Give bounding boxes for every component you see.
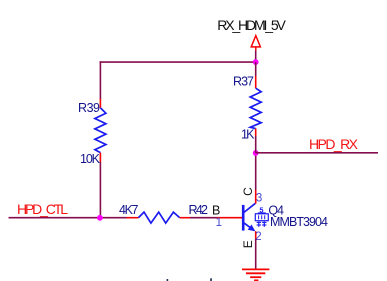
ground [242, 269, 269, 280]
svg-text:E: E [241, 240, 255, 248]
power symbol RX_HDMI_5V [251, 36, 260, 51]
wire R37 junction A down [255, 62, 257, 76]
svg-text:1: 1 [216, 217, 222, 229]
resistor R37 [250, 76, 261, 136]
svg-text:R42: R42 [189, 203, 209, 217]
svg-text:R39: R39 [78, 101, 100, 115]
transistor Q4 collector line [244, 203, 256, 212]
resistor R39 [95, 99, 106, 162]
svg-text:HPD_CTL: HPD_CTL [17, 201, 68, 217]
wire top horizontal [100, 61, 256, 63]
svg-text:1K: 1K [241, 128, 255, 142]
wire R37 to junction C [255, 136, 257, 153]
svg-text:10K: 10K [80, 152, 101, 166]
svg-text:4K7: 4K7 [119, 203, 139, 217]
svg-text:RX_HDMI_5V: RX_HDMI_5V [217, 17, 286, 33]
svg-text:R37: R37 [233, 74, 254, 88]
wire left vertical upper [99, 61, 101, 99]
resistor R42 [127, 212, 191, 223]
junction A [253, 59, 259, 65]
wire junction C to collector [255, 153, 257, 190]
wire power stub to junction [255, 50, 257, 62]
wire HPD_CTL [9, 217, 127, 219]
clipped text remnant left [167, 279, 169, 281]
svg-text:B: B [212, 203, 220, 217]
transistor Q1 base bar [242, 205, 245, 231]
svg-text:C: C [241, 187, 255, 196]
wire R42 to Q4 base [190, 217, 217, 219]
svg-text:HPD_RX: HPD_RX [309, 136, 359, 152]
pin 2 emitter pin [255, 231, 257, 238]
wire emitter to ground [255, 239, 257, 270]
junction B [97, 215, 103, 221]
transistor Q4 emitter line [244, 223, 256, 232]
svg-text:3: 3 [256, 192, 262, 204]
wire HPD_RX [256, 152, 378, 154]
clipped text remnant right [210, 278, 212, 281]
pin 1 base pin [217, 217, 243, 219]
svg-text:MMBT3904: MMBT3904 [270, 215, 328, 229]
pin 3 collector pin [255, 190, 257, 204]
junction C [253, 150, 259, 156]
transistor Q4 footprint glyph [255, 205, 268, 227]
wire left vertical lower [99, 162, 101, 218]
